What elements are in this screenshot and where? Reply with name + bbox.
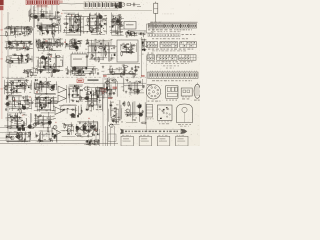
value label: [133, 88, 136, 91]
node J36: [59, 70, 60, 71]
resistor R6: [77, 24, 79, 30]
value label: [74, 45, 76, 48]
wire: [141, 39, 147, 41]
node J89: [38, 121, 39, 122]
wire: [68, 70, 91, 72]
value label: [20, 33, 23, 36]
value label: [24, 85, 27, 88]
value label: [29, 104, 31, 107]
node J26: [22, 48, 23, 49]
value label: [41, 8, 43, 11]
value label: [37, 39, 39, 42]
resistor R50: [76, 42, 82, 44]
capacitor C102 (electrolytic): [90, 91, 92, 93]
node J83: [22, 120, 23, 121]
voltage label (red): [64, 42, 66, 43]
value label: [64, 124, 67, 127]
value label: [86, 56, 89, 59]
wire: [4, 27, 33, 29]
capacitor C16 (electrolytic): [77, 29, 79, 31]
resistor R113: [89, 143, 91, 149]
value label: [107, 85, 110, 88]
wire: [13, 55, 22, 57]
capacitor C34 (electrolytic): [27, 60, 29, 62]
wire: [31, 80, 33, 90]
value label: [110, 59, 112, 62]
value label: [40, 105, 42, 108]
value label: [106, 44, 108, 47]
wire: [31, 13, 54, 15]
ground: [134, 69, 136, 72]
capacitor C132: [112, 120, 115, 122]
node J94: [68, 133, 69, 134]
value label: [78, 134, 80, 137]
transistor Q30: [21, 106, 26, 110]
value label: [39, 100, 41, 103]
wire: [64, 18, 84, 20]
capacitor C40: [40, 44, 43, 46]
resistor R112: [128, 101, 129, 107]
wire: [34, 110, 56, 112]
wire: [46, 96, 48, 107]
wire: [83, 124, 85, 134]
wire: [14, 116, 16, 123]
capacitor C61: [86, 42, 89, 44]
value label: [126, 43, 129, 46]
value label: [54, 56, 56, 59]
resistor R55: [105, 50, 107, 56]
wire: [87, 52, 117, 54]
transistor Q21: [70, 39, 75, 43]
wire: [43, 38, 45, 52]
capacitor C89: [45, 104, 47, 107]
wire: [97, 139, 99, 145]
caption: [152, 49, 186, 52]
capacitor C23 (electrolytic): [115, 6, 117, 8]
wire: [44, 65, 63, 67]
value label: [145, 45, 148, 48]
capacitor C131: [112, 92, 115, 94]
capacitor C42: [46, 45, 48, 48]
wire: [20, 26, 22, 33]
wire: [115, 107, 117, 123]
wire: [11, 84, 13, 91]
capacitor C114: [35, 114, 37, 117]
transistor Q55: [108, 124, 113, 128]
value label: [45, 61, 47, 64]
wire: [11, 60, 22, 62]
wire: [123, 64, 125, 71]
value label: [79, 96, 81, 99]
value label: [79, 89, 81, 92]
transistor Q26: [110, 71, 115, 75]
capacitor C105: [73, 116, 76, 118]
wire: [124, 32, 126, 35]
voltage label (red): [88, 118, 90, 119]
diode D30: [18, 103, 20, 105]
value label: [54, 30, 56, 33]
wire: [109, 79, 111, 95]
wire: [56, 11, 58, 20]
capacitor C47 (electrolytic): [44, 58, 46, 60]
value label: [63, 123, 65, 126]
wire: [38, 84, 40, 90]
capacitor C128 (electrolytic): [83, 128, 85, 130]
wire: [35, 92, 56, 94]
capacitor C133: [114, 107, 117, 109]
value label: [27, 79, 29, 82]
wire: [65, 46, 77, 48]
connector T1 label (red): [37, 5, 48, 6]
value label: [37, 43, 40, 46]
value label: [29, 105, 31, 108]
ground: [65, 22, 67, 25]
wire: [41, 30, 58, 32]
wire: [68, 17, 70, 33]
wire: [91, 94, 93, 100]
IC U1: [71, 54, 87, 67]
diode D3: [39, 25, 41, 27]
wire: [83, 126, 85, 133]
value label: [7, 119, 10, 122]
value label: [113, 20, 115, 23]
wire: [39, 130, 54, 132]
ground: [23, 139, 25, 142]
wire: [5, 46, 30, 48]
value label: [85, 48, 87, 51]
capacitor C144 (electrolytic): [142, 41, 144, 43]
value label: [58, 65, 60, 68]
value label: [86, 104, 88, 107]
resistor R88: [17, 120, 23, 122]
wire: [28, 11, 30, 17]
resistor R81: [80, 98, 86, 100]
capacitor C85: [43, 98, 45, 101]
wire: [16, 82, 18, 94]
wire: [29, 83, 31, 89]
wire: [20, 55, 22, 64]
capacitor C60 (electrolytic): [104, 48, 106, 50]
ground: [23, 100, 25, 103]
wire: [32, 18, 54, 20]
value label: [24, 25, 27, 28]
value label: [9, 100, 11, 103]
node J19: [120, 17, 121, 18]
caption: [158, 134, 167, 137]
capacitor C57: [97, 72, 99, 75]
transistor Q31: [5, 102, 10, 106]
value label: [51, 97, 54, 100]
wire: [11, 96, 13, 112]
IC U4: [147, 24, 154, 33]
wire: [87, 86, 89, 104]
diode D16: [17, 44, 19, 46]
value label: [110, 72, 113, 75]
wire: [14, 28, 16, 35]
transformer T90 core: [96, 88, 103, 95]
wire: [118, 67, 120, 72]
transistor Q17: [57, 42, 62, 46]
resistor R60: [121, 72, 123, 78]
value label: [95, 95, 97, 98]
wire: [90, 89, 92, 112]
node J1: [33, 17, 34, 18]
value label: [87, 143, 90, 146]
diode D40: [63, 109, 65, 111]
resistor R97: [47, 127, 49, 133]
wire: [46, 25, 48, 35]
node J58: [18, 109, 19, 110]
ground: [19, 116, 21, 119]
value label: [134, 119, 136, 122]
capacitor C46 (electrolytic): [43, 66, 45, 68]
capacitor C12: [46, 31, 49, 33]
wire: [68, 88, 79, 90]
wire: [56, 5, 58, 23]
capacitor C53 (electrolytic): [74, 42, 76, 44]
diode D24: [74, 46, 76, 48]
voltage label (red): [22, 115, 24, 116]
node J87: [49, 124, 50, 125]
wire: [85, 141, 100, 143]
transistor Q13: [7, 41, 12, 45]
value label: [105, 14, 107, 17]
ground: [92, 55, 94, 58]
wire: [6, 43, 8, 50]
voltage label (red): [71, 15, 73, 16]
wire B+ rail: [150, 21, 198, 23]
wire: [126, 121, 137, 123]
wire: [49, 117, 51, 125]
wire: [58, 26, 60, 34]
capacitor C92 (electrolytic): [72, 94, 74, 96]
value label: [12, 53, 14, 56]
wire: [41, 43, 43, 49]
wire: [70, 85, 79, 87]
node J69: [50, 81, 51, 82]
diode D11: [28, 33, 30, 35]
wire: [88, 14, 90, 28]
wire: [16, 115, 18, 128]
capacitor C109: [13, 117, 15, 120]
capacitor C36: [26, 54, 28, 57]
wire: [48, 38, 50, 51]
wire: [9, 112, 26, 114]
wire: [6, 56, 8, 61]
wire: [17, 28, 19, 37]
resistor R15: [120, 15, 122, 21]
value label: [37, 89, 40, 92]
wire: [38, 123, 51, 125]
diode D8: [134, 32, 136, 34]
value label: [96, 93, 99, 96]
ground: [52, 88, 54, 91]
wire: [41, 23, 52, 25]
transistor Q56: [125, 109, 130, 113]
transistor Q43: [18, 136, 23, 140]
caption: [148, 29, 192, 30]
capacitor C30: [18, 33, 21, 35]
wire: [91, 34, 105, 36]
wire: [97, 87, 99, 109]
node J81: [18, 126, 19, 127]
node J40: [51, 68, 52, 69]
resistor R98: [34, 123, 40, 125]
capacitor C107: [15, 115, 18, 117]
transistor Q25: [128, 71, 133, 75]
value label: [26, 108, 28, 111]
wire: [4, 28, 22, 30]
value label: [46, 132, 48, 135]
resistor R106: [128, 84, 130, 90]
resistor R14: [120, 21, 122, 27]
node J13: [87, 24, 88, 25]
wire: [30, 113, 32, 126]
value label: [10, 28, 12, 31]
wire: [69, 40, 71, 49]
capacitor C50 (electrolytic): [46, 57, 48, 59]
wire: [51, 5, 53, 24]
transistor Q58: [137, 105, 142, 109]
capacitor C26: [116, 32, 118, 35]
wire: [45, 5, 47, 19]
resistor R19: [118, 25, 124, 27]
wire: [124, 112, 143, 114]
value label: [78, 28, 81, 31]
node J39: [46, 61, 47, 62]
value label: [122, 42, 124, 45]
ground: [102, 66, 104, 69]
value label: [80, 21, 82, 24]
wire: [141, 37, 143, 76]
diode D39: [86, 108, 88, 110]
connector T1 pins: [27, 1, 58, 4]
capacitor C10: [55, 24, 58, 26]
ground: [56, 45, 58, 48]
resistor R66: [17, 85, 23, 87]
wire: [113, 17, 124, 19]
caption: [177, 134, 184, 137]
inset box: [176, 136, 188, 146]
value label: [39, 82, 42, 85]
wire: [62, 55, 64, 67]
wire: [129, 84, 131, 95]
value label: [80, 39, 82, 42]
wire: [45, 100, 47, 107]
value label: [37, 29, 39, 32]
value label: [7, 82, 9, 85]
resistor R30: [27, 53, 29, 59]
wire: [118, 110, 120, 124]
value label: [30, 123, 32, 126]
wire: [10, 25, 12, 33]
capacitor C14 (electrolytic): [71, 29, 73, 31]
left margin tick: [0, 88, 2, 90]
value label: [93, 68, 96, 71]
ground: [20, 41, 22, 44]
diode D51: [92, 134, 94, 136]
capacitor C75: [10, 88, 12, 91]
value label: [48, 38, 50, 41]
value label: [72, 39, 75, 42]
capacitor C118: [48, 138, 51, 140]
value label: [32, 66, 35, 69]
value label: [14, 130, 17, 133]
value label: [142, 53, 144, 56]
wire: [40, 10, 42, 18]
terminal numbering scale: [84, 1, 122, 8]
capacitor C130: [108, 93, 111, 95]
value label: [125, 78, 128, 81]
diode D37: [77, 87, 79, 89]
capacitor C19 (electrolytic): [101, 25, 103, 27]
node J65: [35, 89, 36, 90]
wire: [38, 50, 62, 52]
resistor R94: [28, 131, 30, 137]
capacitor C123 (electrolytic): [54, 134, 56, 136]
caption: [178, 123, 191, 126]
label antenna: [137, 5, 141, 8]
node J85: [17, 132, 18, 133]
wire: [85, 25, 104, 27]
wire: [97, 122, 99, 131]
wire: [22, 55, 24, 62]
value label: [5, 47, 8, 50]
value label: [110, 81, 113, 84]
diode D48: [86, 130, 88, 132]
wire: [72, 67, 74, 75]
diode D13: [22, 32, 24, 34]
value label: [104, 30, 107, 33]
node J53: [123, 46, 124, 47]
value label: [141, 88, 143, 91]
wire: [0, 137, 8, 139]
resistor R91: [6, 127, 12, 129]
wire: [69, 43, 81, 45]
voltage label (red): [108, 97, 112, 99]
node J88: [47, 118, 48, 119]
capacitor C80: [27, 99, 29, 102]
value label: [117, 4, 120, 7]
value label: [72, 43, 74, 46]
value label: [99, 108, 102, 111]
value label: [29, 84, 32, 87]
value label: [76, 99, 78, 102]
value label: [77, 23, 80, 26]
wire: [62, 60, 64, 66]
capacitor C83: [41, 85, 44, 87]
value label: [21, 42, 23, 45]
wire: [41, 133, 50, 135]
value label: [24, 114, 27, 117]
ground: [7, 26, 9, 29]
terminal strip TS1: [147, 71, 198, 79]
wire: [37, 67, 39, 74]
wire: [24, 133, 26, 142]
value label: [44, 38, 46, 41]
wire: [73, 17, 75, 30]
node J62: [9, 108, 10, 109]
wire: [24, 131, 26, 139]
value label: [111, 109, 114, 112]
wire: [0, 140, 100, 142]
wire: [112, 3, 121, 5]
transistor Q50: [79, 127, 84, 131]
wire: [131, 84, 133, 93]
value label: [69, 104, 71, 107]
transistor Q39: [27, 125, 32, 129]
wire: [66, 85, 68, 103]
